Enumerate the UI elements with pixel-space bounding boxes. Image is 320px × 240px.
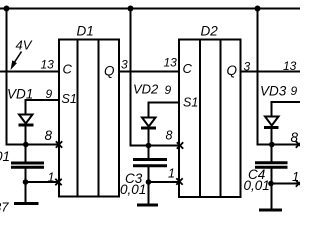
svg-text:Q: Q [104, 64, 115, 79]
svg-text:13: 13 [41, 58, 55, 72]
svg-text:8: 8 [166, 129, 173, 143]
svg-text:37: 37 [0, 200, 9, 215]
svg-text:S1: S1 [183, 96, 198, 110]
svg-text:C: C [63, 62, 73, 77]
svg-text:8: 8 [45, 128, 53, 143]
svg-text:13: 13 [283, 59, 297, 73]
svg-text:VD3: VD3 [260, 84, 287, 99]
svg-text:9: 9 [291, 84, 298, 98]
svg-text:1: 1 [168, 167, 175, 181]
svg-text:3: 3 [244, 60, 251, 74]
svg-text:3: 3 [121, 58, 128, 72]
svg-text:9: 9 [165, 83, 172, 97]
svg-text:13: 13 [164, 56, 178, 70]
svg-text:9: 9 [46, 87, 53, 101]
svg-text:VD1: VD1 [7, 87, 33, 102]
svg-text:VD2: VD2 [133, 82, 159, 97]
svg-text:C: C [183, 61, 193, 76]
svg-text:S1: S1 [62, 92, 77, 106]
svg-text:8: 8 [291, 130, 299, 145]
svg-text:1: 1 [48, 171, 55, 185]
svg-text:1,: 1, [292, 169, 300, 184]
svg-text:4V: 4V [16, 38, 33, 53]
svg-text:D1: D1 [77, 24, 94, 39]
svg-text:D2: D2 [201, 24, 219, 39]
svg-text:Q: Q [227, 63, 238, 78]
svg-text:0,01: 0,01 [120, 182, 146, 197]
svg-text:0,01: 0,01 [0, 149, 10, 164]
svg-text:0,01: 0,01 [244, 178, 270, 193]
